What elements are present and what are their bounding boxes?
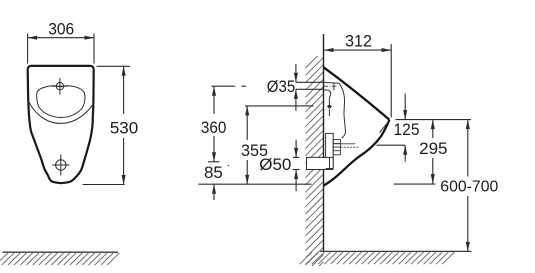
dimension 355 [245, 106, 314, 184]
ground line left [3, 251, 119, 253]
stray dot detail [228, 165, 230, 167]
front bottom crosshair [52, 155, 69, 176]
side interior: inlet pipe [324, 82, 340, 90]
side interior: spreader [327, 90, 332, 116]
dimension 295 [394, 120, 436, 185]
dimension 600-700 [466, 120, 470, 252]
ground hatch left [0, 253, 120, 265]
svg-text:360: 360 [201, 118, 227, 137]
svg-text:125: 125 [394, 120, 420, 139]
dimension 530 [83, 66, 131, 184]
svg-text:Ø35: Ø35 [267, 77, 296, 96]
side interior: outlet pipe through wall [307, 158, 334, 169]
side profile top edge [324, 67, 390, 120]
dimension 306 line [28, 34, 94, 64]
dimension 360 [208, 86, 246, 162]
svg-text:306: 306 [48, 19, 74, 38]
wall line [323, 34, 325, 252]
svg-text:355: 355 [241, 141, 268, 160]
svg-text:295: 295 [419, 139, 447, 158]
floor hatch right [300, 252, 455, 264]
side interior: pipe centerline [323, 85, 337, 87]
side interior: trap housing [326, 133, 334, 168]
tip level extension line [396, 119, 472, 121]
side profile inner lip near tip [380, 122, 389, 133]
front view outline [28, 66, 94, 183]
side interior: bowl back line [339, 83, 345, 138]
side interior: corrugated coupling [333, 140, 358, 155]
floor line right [320, 250, 471, 252]
svg-text:600-700: 600-700 [440, 178, 498, 195]
svg-text:85: 85 [204, 163, 223, 182]
svg-text:530: 530 [110, 118, 138, 137]
front view outer lip sweep [28, 101, 93, 124]
front view inner rim (shield) [37, 86, 85, 118]
dimension 125 [377, 94, 408, 162]
wall hatch [290, 50, 324, 273]
front top crosshair [52, 78, 68, 95]
side profile bottom edge [324, 120, 390, 186]
svg-text:312: 312 [345, 32, 372, 51]
